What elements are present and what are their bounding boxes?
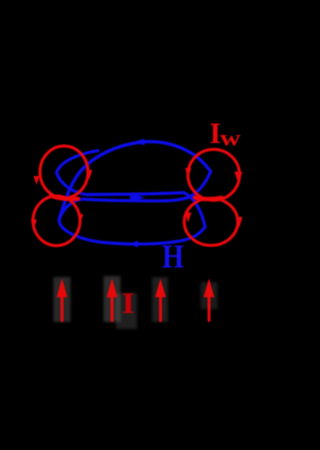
- svg-text:H: H: [162, 239, 184, 276]
- svg-text:w: w: [220, 126, 241, 151]
- svg-text:I: I: [122, 287, 136, 320]
